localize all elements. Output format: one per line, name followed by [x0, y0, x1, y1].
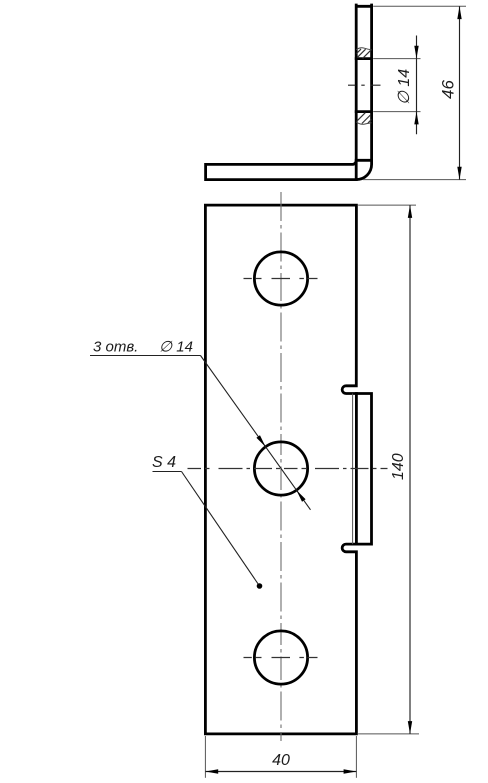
S4 leader line	[182, 472, 260, 587]
46 extension line top	[373, 5, 466, 7]
hole 3 (bottom)	[254, 631, 307, 684]
hole 1 centerline	[244, 278, 318, 280]
hatch lines (bottom band)	[357, 113, 372, 124]
40 dimension line + arrows	[205, 771, 356, 773]
S4 leader dot	[257, 583, 263, 589]
top view: L-profile outline	[206, 5, 372, 180]
svg-text:∅ 14: ∅ 14	[159, 339, 193, 356]
dia14 dimension line lower + arrow	[416, 59, 418, 135]
hole 3 centerline	[244, 657, 318, 659]
local section break line (top)	[356, 48, 371, 50]
arrowhead at lower circle intersection	[296, 490, 305, 502]
dia14 extension line upper	[373, 58, 420, 60]
40 extension line right	[355, 736, 357, 778]
hole centerline (top view)	[348, 84, 381, 86]
svg-text:∅ 14: ∅ 14	[396, 69, 413, 105]
svg-text:140: 140	[390, 453, 407, 480]
leader/diameter line through middle hole	[201, 356, 311, 510]
svg-text:46: 46	[439, 80, 458, 99]
svg-text:40: 40	[272, 752, 290, 769]
bend tangent line across flange	[356, 159, 371, 162]
svg-text:S 4: S 4	[152, 454, 176, 471]
vertical centerline of plate	[280, 192, 282, 741]
svg-text:3 отв.: 3 отв.	[93, 339, 138, 356]
140 extension line bottom	[358, 733, 419, 735]
40 extension line left	[204, 736, 206, 778]
hole section top edge	[356, 57, 371, 60]
140 dimension line + arrows	[409, 205, 411, 734]
bend line (thin) on flange	[352, 394, 354, 545]
hatch lines (top band)	[357, 49, 372, 58]
leader underline	[90, 355, 201, 357]
front view: plate outline with relief notches and flange	[205, 205, 371, 734]
dia14 extension line lower	[373, 111, 420, 113]
hole section bottom edge	[356, 110, 371, 113]
plate right edge through bend zone	[355, 394, 358, 545]
hole 2 (middle)	[254, 442, 307, 495]
hole 2 centerline	[188, 468, 388, 470]
dia14 dimension line upper + arrow	[416, 36, 418, 59]
arrowhead at upper circle intersection	[256, 435, 265, 447]
local section break line (bottom)	[356, 122, 371, 124]
46 dimension line + arrows	[459, 6, 461, 179]
hole 1 (top)	[254, 252, 307, 305]
S4 underline	[153, 471, 182, 473]
140 extension line top	[358, 204, 416, 206]
46 extension line bottom	[363, 179, 466, 181]
